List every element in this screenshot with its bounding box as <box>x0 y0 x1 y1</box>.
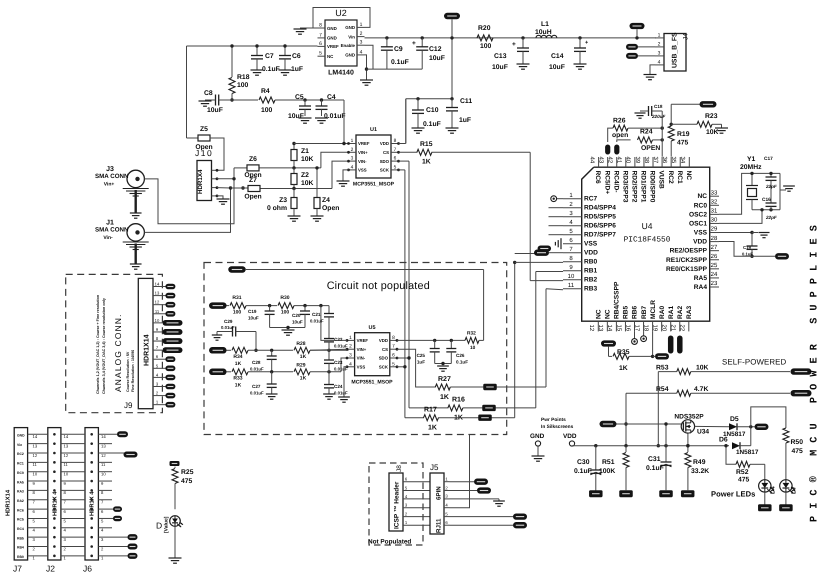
svg-text:L1: L1 <box>541 21 549 28</box>
pin J9-8 <box>153 340 162 342</box>
svg-text:R28: R28 <box>296 341 305 347</box>
svg-text:RB4/CSSPP: RB4/CSSPP <box>614 281 621 319</box>
svg-text:3: 3 <box>405 503 408 508</box>
wire OSC1 <box>719 210 762 224</box>
svg-text:Z5: Z5 <box>200 126 208 133</box>
svg-text:17: 17 <box>633 325 640 332</box>
wire J7 row 11 <box>28 461 48 463</box>
pad on R53 net <box>791 368 812 374</box>
wire J4 pin4 to ground <box>650 65 655 75</box>
svg-text:Vin: Vin <box>348 34 355 39</box>
svg-text:5: 5 <box>394 164 397 170</box>
J3 shield hatch and ground <box>123 188 149 190</box>
resistor R53 <box>658 371 677 373</box>
pin J9-3 <box>153 385 166 387</box>
svg-text:Z4: Z4 <box>322 197 330 204</box>
svg-text:R49: R49 <box>693 459 706 466</box>
svg-text:41: 41 <box>616 157 623 164</box>
jumper Z6 <box>234 167 247 169</box>
wire J10 pin2 row <box>217 178 234 180</box>
svg-text:R29: R29 <box>296 363 305 369</box>
svg-text:MCLR: MCLR <box>650 300 657 319</box>
svg-text:23: 23 <box>711 280 718 287</box>
svg-text:0.1uF: 0.1uF <box>646 465 664 472</box>
svg-text:RB6: RB6 <box>632 305 639 319</box>
svg-text:J4: J4 <box>683 33 690 40</box>
svg-text:100: 100 <box>281 310 290 316</box>
svg-text:MCP3551_MSOP: MCP3551_MSOP <box>353 182 395 188</box>
dashed box ANALOG CONN <box>66 274 163 412</box>
svg-text:7: 7 <box>319 32 322 38</box>
svg-text:10uH: 10uH <box>535 29 552 36</box>
svg-text:RB7: RB7 <box>641 305 648 319</box>
capacitor C14 <box>578 36 581 39</box>
svg-text:0.1uF: 0.1uF <box>456 360 468 365</box>
wire U1 SDO bus <box>399 160 410 162</box>
microcontroller U4 PIC18F4550 <box>582 167 710 321</box>
pad VBUS supply <box>600 421 617 427</box>
ground <box>338 396 350 398</box>
ground <box>446 127 459 129</box>
svg-text:11: 11 <box>155 309 160 314</box>
wire VREF row to U1 pin1 <box>294 143 349 145</box>
svg-text:10: 10 <box>568 273 575 280</box>
svg-text:R23: R23 <box>705 113 718 120</box>
svg-text:0.1uF: 0.1uF <box>574 468 592 475</box>
svg-text:Z3: Z3 <box>279 197 287 204</box>
pad on R54 net <box>791 390 812 396</box>
ground <box>574 63 587 65</box>
svg-text:VSS: VSS <box>694 230 708 237</box>
svg-text:RE1/CK2SPP: RE1/CK2SPP <box>666 257 708 264</box>
capacitor C16 <box>766 202 777 204</box>
svg-text:24: 24 <box>711 271 718 278</box>
svg-text:10uF: 10uF <box>549 64 565 71</box>
wire gate row <box>617 423 682 425</box>
svg-text:26: 26 <box>711 253 718 260</box>
svg-text:10K: 10K <box>301 180 314 187</box>
svg-text:28: 28 <box>711 235 718 242</box>
svg-text:GND: GND <box>530 433 545 440</box>
svg-text:RC4/D-: RC4/D- <box>612 171 619 193</box>
svg-text:RC1: RC1 <box>676 171 683 185</box>
wire R16 to RB1 <box>535 272 537 408</box>
test point pin17 <box>643 331 645 335</box>
wire R17 to RB0 <box>514 262 516 417</box>
svg-text:6: 6 <box>405 477 408 482</box>
pad gnd D4 <box>758 504 772 511</box>
op-amp U5 MCP3551 <box>355 333 390 376</box>
ground <box>493 500 505 502</box>
wire C19 C20 ground rail <box>270 327 305 329</box>
svg-text:In Silkscreens: In Silkscreens <box>541 424 574 430</box>
svg-text:RB0: RB0 <box>584 259 598 266</box>
svg-text:C31: C31 <box>648 456 661 463</box>
jumper Z5 <box>187 137 199 139</box>
wire RD pins stubs <box>549 207 564 209</box>
svg-text:43: 43 <box>597 157 604 164</box>
inductor L1 <box>536 35 541 38</box>
svg-text:33.2K: 33.2K <box>691 468 709 475</box>
wire RB2 <box>530 280 563 282</box>
svg-text:5: 5 <box>156 363 159 368</box>
svg-text:10: 10 <box>33 472 38 477</box>
wire C10 C11 rail <box>406 98 452 100</box>
svg-text:R34: R34 <box>233 354 242 360</box>
wire J3 to node <box>144 168 234 224</box>
capacitor C29 <box>232 327 234 337</box>
svg-text:4.7K: 4.7K <box>694 386 708 393</box>
pad J5 pin1 <box>450 481 475 483</box>
svg-text:C20: C20 <box>292 313 301 318</box>
resistor R33 <box>227 371 232 373</box>
svg-text:1: 1 <box>351 138 354 144</box>
svg-text:3: 3 <box>156 381 159 386</box>
svg-text:6: 6 <box>392 353 395 359</box>
svg-text:2: 2 <box>349 344 352 350</box>
svg-text:HDR1X 4: HDR1X 4 <box>53 491 59 516</box>
resistor R31 <box>227 305 230 307</box>
svg-text:13: 13 <box>33 443 38 448</box>
svg-text:5: 5 <box>64 518 67 523</box>
wire U1 VDD up <box>399 143 406 145</box>
resistor R18 <box>231 46 233 77</box>
svg-text:6: 6 <box>445 520 448 525</box>
svg-text:12: 12 <box>101 453 106 458</box>
svg-text:5: 5 <box>445 511 448 516</box>
svg-text:31: 31 <box>711 208 718 215</box>
svg-text:4: 4 <box>101 528 104 533</box>
svg-text:RB5: RB5 <box>623 305 630 319</box>
svg-text:2: 2 <box>101 546 104 551</box>
svg-text:21: 21 <box>670 325 677 332</box>
svg-text:C19: C19 <box>743 245 751 250</box>
resistor Z2 jumper <box>293 168 295 174</box>
svg-text:40: 40 <box>625 157 632 164</box>
svg-text:0.1uF: 0.1uF <box>742 252 753 257</box>
svg-text:SMA CONN: SMA CONN <box>95 173 129 180</box>
svg-text:SCK: SCK <box>380 168 390 173</box>
svg-text:VSS: VSS <box>358 168 367 173</box>
ground <box>266 393 278 395</box>
LED D7 <box>780 480 792 492</box>
svg-text:ICSP: ICSP <box>394 513 401 529</box>
svg-text:J5: J5 <box>430 463 439 472</box>
wire Vin rail <box>365 37 657 39</box>
pad D+ on J4 pin3 <box>626 53 638 59</box>
ground <box>758 232 769 234</box>
pad RA2 bar <box>677 336 683 354</box>
svg-text:6PIN: 6PIN <box>436 486 443 500</box>
svg-text:RJ11: RJ11 <box>436 518 443 533</box>
svg-text:7: 7 <box>392 344 395 350</box>
pin J9-6 <box>153 358 166 360</box>
svg-text:8: 8 <box>394 138 397 144</box>
pin J9-12 <box>153 304 166 306</box>
svg-text:7: 7 <box>64 500 67 505</box>
svg-text:C29: C29 <box>224 319 233 324</box>
pad RC5 bar <box>605 145 610 155</box>
wire crystal bottom rail <box>752 209 780 211</box>
svg-text:2: 2 <box>351 147 354 153</box>
jumper Z4 <box>316 168 318 198</box>
svg-text:RB5: RB5 <box>17 536 24 540</box>
svg-text:D7: D7 <box>791 486 798 494</box>
capacitor C11 <box>451 99 453 108</box>
svg-text:GND: GND <box>345 53 355 58</box>
svg-text:J7: J7 <box>13 564 22 574</box>
test point RC7 <box>557 198 563 200</box>
svg-text:12: 12 <box>64 453 69 458</box>
svg-text:J8: J8 <box>396 465 403 472</box>
pad D5 out <box>755 424 769 430</box>
capacitor C18 <box>648 106 650 116</box>
svg-text:R31: R31 <box>232 295 241 301</box>
capacitor C9 <box>385 36 388 39</box>
svg-text:J6: J6 <box>83 564 92 574</box>
svg-text:1: 1 <box>33 556 36 561</box>
wire J5 pin4 <box>450 435 470 508</box>
svg-text:U4: U4 <box>642 221 653 231</box>
svg-text:10uF: 10uF <box>492 64 508 71</box>
svg-text:16: 16 <box>624 325 631 332</box>
svg-text:7: 7 <box>101 500 104 505</box>
wire C9 C12 bottom rail <box>367 68 423 70</box>
svg-text:2: 2 <box>658 41 661 47</box>
svg-text:475: 475 <box>792 448 804 455</box>
svg-text:C19: C19 <box>248 309 257 314</box>
svg-text:8: 8 <box>319 23 322 29</box>
svg-text:RC5/D+: RC5/D+ <box>603 171 610 195</box>
svg-text:10K: 10K <box>301 156 314 163</box>
svg-text:C6: C6 <box>292 53 301 60</box>
svg-text:USB_B_FS: USB_B_FS <box>672 32 679 68</box>
wire D5 to R50 <box>751 407 786 428</box>
svg-text:Open: Open <box>244 194 261 201</box>
wire U1 VSS to ground <box>343 170 349 181</box>
capacitor C31 <box>665 424 667 462</box>
svg-text:6: 6 <box>319 41 322 47</box>
svg-text:VIN-: VIN- <box>357 356 366 361</box>
svg-text:0.01uF: 0.01uF <box>334 344 348 349</box>
svg-text:HDR1X14: HDR1X14 <box>144 334 151 366</box>
wire U5 CS down <box>397 349 436 387</box>
svg-text:Enable: Enable <box>341 43 356 48</box>
resistor R24 <box>617 140 631 142</box>
svg-text:U5: U5 <box>368 325 375 331</box>
capacitor C28 <box>270 349 273 352</box>
svg-text:1: 1 <box>156 400 159 405</box>
svg-text:14: 14 <box>155 282 160 287</box>
svg-text:12: 12 <box>155 300 160 305</box>
svg-text:VREF: VREF <box>358 141 370 146</box>
wire J7 row 1 <box>28 555 48 557</box>
svg-text:0.01uF: 0.01uF <box>221 325 235 330</box>
test point on RB0 net <box>538 246 552 252</box>
pad RA1 bar <box>668 336 674 354</box>
pad gnd C30 <box>589 490 603 497</box>
resistor R28 <box>294 347 310 353</box>
pad on R16 net <box>482 405 496 411</box>
svg-text:29: 29 <box>711 226 718 233</box>
svg-text:8: 8 <box>101 490 104 495</box>
wire R53 vertical <box>657 372 659 446</box>
wire U5 SCK to bus <box>397 366 405 368</box>
svg-text:RB3: RB3 <box>584 286 598 293</box>
svg-text:5: 5 <box>319 51 322 57</box>
svg-text:10: 10 <box>155 318 160 323</box>
svg-text:7: 7 <box>394 147 397 153</box>
svg-text:14: 14 <box>64 434 69 439</box>
ground <box>299 117 312 119</box>
resistor R17 <box>405 417 424 419</box>
svg-text:RE2/OESPP: RE2/OESPP <box>670 248 708 255</box>
svg-text:2: 2 <box>405 512 408 517</box>
svg-text:11: 11 <box>101 462 106 467</box>
svg-text:R51: R51 <box>602 459 615 466</box>
svg-text:1: 1 <box>349 335 352 341</box>
pad RC4 bar <box>614 145 619 155</box>
svg-text:22: 22 <box>679 325 686 332</box>
svg-text:475: 475 <box>738 477 750 484</box>
pin J9-4 <box>153 376 166 378</box>
ground <box>532 455 545 457</box>
pin J9-1 <box>153 404 166 406</box>
svg-text:R33: R33 <box>233 376 242 382</box>
capacitor C24 <box>324 384 334 386</box>
wire J7 row 4 <box>28 527 48 529</box>
op-amp U1 MCP3551 <box>356 135 391 178</box>
connector J3 SMA <box>127 170 144 187</box>
svg-text:NC: NC <box>327 54 334 59</box>
svg-text:R16: R16 <box>452 397 465 404</box>
svg-text:10: 10 <box>64 472 69 477</box>
pin J9-7 <box>153 349 162 351</box>
svg-text:7: 7 <box>33 500 36 505</box>
capacitor C19 <box>269 306 271 311</box>
svg-text:18: 18 <box>642 325 649 332</box>
ground <box>279 69 292 71</box>
wire J7 row 7 <box>28 499 48 501</box>
pad MCLR test <box>655 353 669 359</box>
svg-text:RD7/SPP7: RD7/SPP7 <box>584 232 616 239</box>
svg-text:C8: C8 <box>204 90 213 97</box>
svg-text:13: 13 <box>101 443 106 448</box>
svg-text:4: 4 <box>156 372 159 377</box>
svg-text:U1: U1 <box>370 127 377 133</box>
svg-text:U2: U2 <box>335 8 347 18</box>
svg-text:J2: J2 <box>46 564 55 574</box>
svg-text:38: 38 <box>643 157 650 164</box>
svg-text:R35: R35 <box>617 349 630 356</box>
svg-text:NC: NC <box>605 309 612 319</box>
svg-text:1K: 1K <box>300 376 307 382</box>
capacitor C13 <box>521 36 524 39</box>
svg-text:100: 100 <box>233 310 242 316</box>
svg-text:1K: 1K <box>235 361 242 367</box>
svg-text:GND: GND <box>327 26 337 31</box>
wire Vin+ to U1 <box>321 152 349 168</box>
svg-text:11: 11 <box>568 282 575 289</box>
capacitor C25 <box>434 340 436 348</box>
svg-text:RC7: RC7 <box>584 196 598 203</box>
svg-text:OPEN: OPEN <box>641 145 660 152</box>
ground <box>288 215 301 217</box>
capacitor C8 <box>215 95 217 106</box>
pin J9-9 <box>153 331 162 333</box>
svg-text:9: 9 <box>569 264 573 271</box>
svg-text:8: 8 <box>33 490 36 495</box>
svg-text:PIC18F4550: PIC18F4550 <box>624 236 671 245</box>
wire U1 SCK bus <box>399 169 405 171</box>
capacitor C20 <box>304 306 306 311</box>
pad J5 pin5 <box>450 516 514 518</box>
svg-text:5: 5 <box>101 518 104 523</box>
svg-text:R19: R19 <box>677 131 690 138</box>
svg-text:RD6/SPP6: RD6/SPP6 <box>584 223 616 230</box>
svg-text:RA2: RA2 <box>17 499 24 503</box>
ground <box>169 557 182 559</box>
resistor R25 <box>174 467 176 468</box>
wire J10 pin4 to ground <box>217 196 223 199</box>
svg-text:5: 5 <box>405 486 408 491</box>
svg-text:13: 13 <box>597 325 604 332</box>
wire J7 row 3 <box>28 536 48 538</box>
pad R25 top <box>170 461 180 466</box>
resistor R29 <box>294 369 310 375</box>
resistor R15 <box>399 151 418 153</box>
svg-text:1: 1 <box>569 192 573 199</box>
svg-text:HDR1X4: HDR1X4 <box>197 169 204 194</box>
svg-text:Channels 1,2 (VOUT_DAC 1,2): Channels 1,2 (VOUT_DAC 1,2) : Coarse + F… <box>96 294 100 394</box>
svg-text:9: 9 <box>64 481 67 486</box>
wire U2 pin4 to ground rail <box>365 55 367 80</box>
wire VDD rail <box>571 445 573 447</box>
pad gnd R51 <box>619 490 633 497</box>
wire pin2 row <box>310 349 347 350</box>
svg-text:0.01uF: 0.01uF <box>334 391 348 396</box>
svg-text:100: 100 <box>261 107 273 114</box>
svg-text:C7: C7 <box>265 53 274 60</box>
svg-text:20MHz: 20MHz <box>740 164 762 171</box>
svg-text:2: 2 <box>156 391 159 396</box>
wire J7 row 12 <box>28 452 48 454</box>
svg-text:ANALOG CONN.: ANALOG CONN. <box>113 313 123 392</box>
pad on R27 net <box>483 384 497 390</box>
connector J10 HDR1X4 <box>197 161 212 201</box>
svg-text:2: 2 <box>360 31 363 37</box>
svg-text:1K: 1K <box>440 394 449 401</box>
svg-text:2: 2 <box>569 201 573 208</box>
svg-text:R25: R25 <box>181 469 194 476</box>
svg-text:9: 9 <box>156 327 159 332</box>
resistor R51 <box>625 446 627 452</box>
svg-text:4: 4 <box>569 219 573 226</box>
svg-text:1K: 1K <box>619 365 628 372</box>
svg-text:C4: C4 <box>327 94 336 101</box>
svg-text:10: 10 <box>470 345 476 351</box>
svg-text:R27: R27 <box>438 376 451 383</box>
ground <box>251 69 264 71</box>
capacitor C30 <box>595 446 597 470</box>
resistor R52 <box>726 446 736 465</box>
svg-text:4: 4 <box>445 503 448 508</box>
wire J7 row 14 <box>28 433 48 435</box>
svg-text:10: 10 <box>101 472 106 477</box>
svg-text:C25: C25 <box>417 353 426 358</box>
svg-text:Z6: Z6 <box>249 156 257 163</box>
wire VSS pin29 <box>719 232 752 234</box>
